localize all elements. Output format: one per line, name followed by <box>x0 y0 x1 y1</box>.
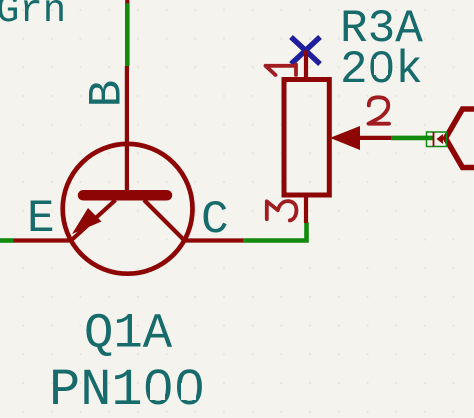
svg-text:Q1A: Q1A <box>84 306 173 362</box>
svg-text:C: C <box>201 194 229 246</box>
svg-text:B: B <box>81 80 133 108</box>
svg-text:E: E <box>27 193 55 245</box>
svg-text:Grn: Grn <box>0 0 66 33</box>
